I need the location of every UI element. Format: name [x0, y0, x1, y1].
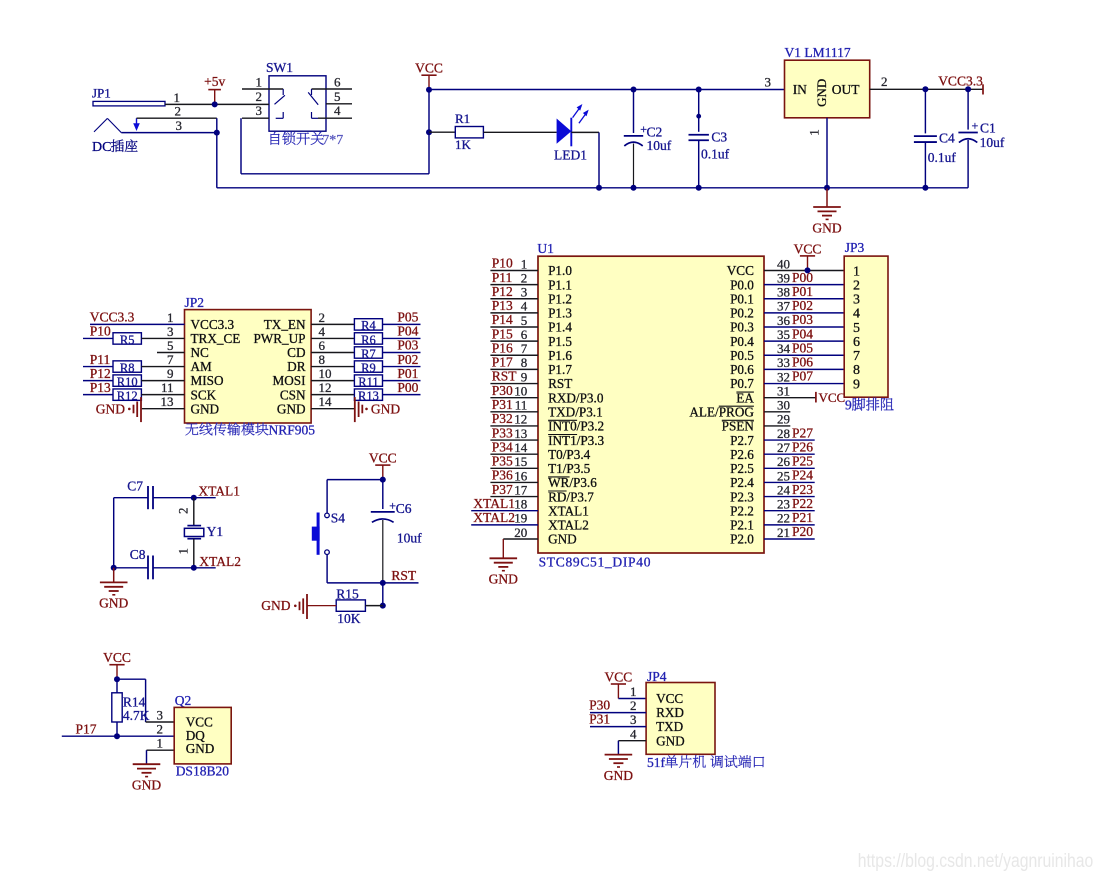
svg-text:XTAL1: XTAL1: [198, 484, 240, 499]
svg-text:33: 33: [777, 355, 790, 370]
svg-text:2: 2: [256, 89, 263, 104]
svg-text:NC: NC: [191, 345, 210, 360]
svg-text:TRX_CE: TRX_CE: [191, 331, 241, 346]
svg-text:13: 13: [514, 426, 527, 441]
svg-text:P10: P10: [90, 324, 111, 339]
svg-text:2: 2: [157, 722, 164, 737]
svg-text:R8: R8: [120, 361, 135, 375]
svg-text:SCK: SCK: [191, 387, 217, 402]
svg-text:0.1uf: 0.1uf: [928, 150, 957, 165]
svg-text:3: 3: [853, 293, 860, 308]
svg-text:14: 14: [319, 394, 333, 409]
svg-text:P06: P06: [792, 355, 813, 370]
svg-text:VCC: VCC: [605, 669, 633, 684]
svg-text:P02: P02: [792, 298, 813, 313]
svg-text:V1 LM1117: V1 LM1117: [785, 45, 851, 60]
svg-text:R5: R5: [120, 333, 135, 347]
svg-text:27: 27: [777, 440, 791, 455]
svg-text:C8: C8: [130, 547, 146, 562]
svg-text:31: 31: [777, 383, 790, 398]
svg-text:P0.5: P0.5: [730, 348, 754, 363]
svg-text:VCC3.3: VCC3.3: [90, 310, 135, 325]
svg-text:P1.3: P1.3: [548, 306, 572, 321]
svg-text:5: 5: [853, 321, 860, 336]
svg-text:1: 1: [167, 310, 174, 325]
svg-text:P2.5: P2.5: [730, 461, 754, 476]
svg-text:7: 7: [853, 349, 860, 364]
svg-text:13: 13: [161, 394, 174, 409]
svg-text:8: 8: [319, 352, 326, 367]
svg-text:3: 3: [176, 118, 183, 133]
svg-text:P07: P07: [792, 369, 813, 384]
svg-text:P14: P14: [492, 312, 513, 327]
svg-text:VCC3.3: VCC3.3: [938, 73, 983, 88]
svg-text:P05: P05: [397, 310, 418, 325]
svg-text:VCC: VCC: [819, 390, 846, 405]
svg-text:P37: P37: [492, 482, 513, 497]
svg-text:GND: GND: [812, 220, 841, 235]
svg-text:P03: P03: [792, 312, 813, 327]
svg-text:3: 3: [256, 103, 263, 118]
svg-text:P34: P34: [492, 439, 513, 454]
svg-text:4: 4: [521, 299, 528, 314]
svg-text:R10: R10: [117, 375, 138, 389]
svg-text:15: 15: [514, 454, 527, 469]
svg-text:10uf: 10uf: [647, 138, 672, 153]
svg-text:XTAL1: XTAL1: [548, 503, 589, 518]
svg-text:P32: P32: [492, 411, 513, 426]
svg-text:P0.3: P0.3: [730, 320, 754, 335]
svg-text:P31: P31: [492, 397, 513, 412]
svg-text:JP3: JP3: [845, 240, 865, 255]
svg-text:P0.6: P0.6: [730, 362, 754, 377]
svg-text:6: 6: [521, 327, 528, 342]
svg-text:10uf: 10uf: [980, 135, 1005, 150]
svg-text:P17: P17: [76, 722, 97, 737]
svg-text:9: 9: [167, 366, 174, 381]
svg-text:P1.6: P1.6: [548, 348, 572, 363]
svg-text:4.7K: 4.7K: [123, 708, 150, 723]
svg-text:0.1uf: 0.1uf: [701, 146, 730, 161]
svg-text:VCC: VCC: [415, 61, 443, 76]
svg-text:26: 26: [777, 454, 791, 469]
svg-text:10: 10: [319, 366, 332, 381]
svg-text:7: 7: [167, 352, 174, 367]
svg-text:IN: IN: [793, 82, 807, 97]
svg-text:P11: P11: [492, 270, 513, 285]
svg-text:32: 32: [777, 369, 790, 384]
svg-text:5: 5: [334, 89, 341, 104]
svg-text:37: 37: [777, 299, 791, 314]
svg-text:1: 1: [807, 129, 822, 136]
svg-text:VCC: VCC: [186, 714, 213, 729]
svg-text:P1.2: P1.2: [548, 291, 572, 306]
svg-text:1: 1: [174, 90, 181, 105]
svg-text:1K: 1K: [455, 137, 472, 152]
svg-text:40: 40: [777, 256, 790, 271]
svg-text:1: 1: [157, 736, 164, 751]
svg-text:P13: P13: [90, 380, 111, 395]
svg-text:GND: GND: [489, 572, 518, 587]
svg-text:JP4: JP4: [647, 669, 667, 684]
svg-text:P27: P27: [792, 425, 813, 440]
svg-text:Y1: Y1: [207, 524, 224, 539]
svg-text:C3: C3: [711, 129, 727, 144]
svg-text:NRF905: NRF905: [269, 422, 316, 437]
svg-text:R7: R7: [361, 347, 376, 361]
svg-text:C4: C4: [939, 131, 955, 146]
svg-text:6: 6: [334, 75, 341, 90]
svg-text:P01: P01: [792, 284, 813, 299]
svg-text:P21: P21: [792, 510, 813, 525]
svg-text:P0.2: P0.2: [730, 306, 754, 321]
svg-text:PWR_UP: PWR_UP: [253, 331, 305, 346]
svg-text:3: 3: [167, 324, 174, 339]
svg-text:P04: P04: [397, 324, 418, 339]
svg-text:C1: C1: [980, 120, 996, 135]
svg-text:P1.4: P1.4: [548, 320, 572, 335]
svg-text:9: 9: [845, 397, 852, 412]
svg-text:P12: P12: [90, 366, 111, 381]
svg-text:28: 28: [777, 426, 790, 441]
svg-text:R6: R6: [361, 333, 376, 347]
svg-text:S4: S4: [331, 510, 346, 525]
svg-text:VCC: VCC: [656, 691, 683, 706]
svg-text:19: 19: [514, 511, 527, 526]
svg-text:2: 2: [853, 278, 860, 293]
svg-text:9: 9: [521, 369, 528, 384]
svg-text:P26: P26: [792, 439, 813, 454]
svg-text:P30: P30: [589, 698, 610, 713]
svg-text:R1: R1: [455, 111, 470, 126]
svg-text:P0.0: P0.0: [730, 277, 754, 292]
svg-text:51f: 51f: [647, 755, 666, 770]
svg-text:P1.0: P1.0: [548, 263, 572, 278]
svg-text:10: 10: [514, 383, 527, 398]
svg-text:P24: P24: [792, 468, 813, 483]
svg-text:8: 8: [521, 355, 528, 370]
svg-text:P2.0: P2.0: [730, 532, 754, 547]
svg-text:P1.1: P1.1: [548, 277, 572, 292]
svg-text:35: 35: [777, 327, 790, 342]
svg-text:TX_EN: TX_EN: [264, 317, 306, 332]
svg-text:P1.7: P1.7: [548, 362, 572, 377]
svg-text:JP2: JP2: [185, 295, 205, 310]
svg-text:P35: P35: [492, 454, 513, 469]
svg-text:P23: P23: [792, 482, 813, 497]
svg-text:4: 4: [334, 103, 341, 118]
svg-text:P13: P13: [492, 298, 513, 313]
svg-text:RST: RST: [548, 376, 572, 391]
svg-text:3: 3: [630, 712, 637, 727]
svg-text:C6: C6: [396, 501, 412, 516]
svg-text:P00: P00: [397, 380, 418, 395]
svg-text:4: 4: [853, 307, 860, 322]
svg-text:P12: P12: [492, 284, 513, 299]
svg-text:22: 22: [777, 511, 790, 526]
svg-text:P0.4: P0.4: [730, 334, 754, 349]
svg-text:1: 1: [630, 684, 637, 699]
svg-text:12: 12: [319, 380, 332, 395]
svg-text:P0.1: P0.1: [730, 291, 754, 306]
svg-text:R9: R9: [361, 361, 376, 375]
svg-text:7*7: 7*7: [322, 133, 343, 148]
svg-text:38: 38: [777, 285, 790, 300]
svg-text:5: 5: [521, 313, 528, 328]
svg-text:https://blog.csdn.net/yagnruin: https://blog.csdn.net/yagnruinihao: [858, 851, 1094, 872]
svg-text:CSN: CSN: [280, 387, 306, 402]
svg-text:P30: P30: [492, 383, 513, 398]
svg-text:DS18B20: DS18B20: [176, 764, 230, 779]
svg-text:4: 4: [630, 726, 637, 741]
svg-text:VCC: VCC: [794, 241, 822, 256]
svg-text:P00: P00: [792, 270, 813, 285]
svg-text:LED1: LED1: [554, 148, 587, 163]
svg-text:1: 1: [521, 256, 528, 271]
svg-text:24: 24: [777, 482, 791, 497]
svg-text:XTAL1: XTAL1: [473, 496, 515, 511]
svg-text:30: 30: [777, 398, 790, 413]
svg-text:36: 36: [777, 313, 791, 328]
svg-text:P11: P11: [90, 352, 111, 367]
svg-text:3: 3: [521, 285, 528, 300]
svg-text:Q2: Q2: [175, 693, 192, 708]
svg-text:JP1: JP1: [92, 86, 111, 101]
svg-text:P2.7: P2.7: [730, 433, 754, 448]
svg-text:10K: 10K: [337, 611, 361, 626]
svg-text:2: 2: [521, 270, 528, 285]
svg-text:7: 7: [521, 341, 528, 356]
svg-text:U1: U1: [537, 241, 554, 256]
svg-text:P22: P22: [792, 496, 813, 511]
svg-text:DC: DC: [92, 140, 111, 155]
svg-text:GND: GND: [604, 768, 633, 783]
svg-text:MOSI: MOSI: [273, 373, 306, 388]
svg-text:CD: CD: [287, 345, 305, 360]
svg-text:9: 9: [853, 377, 860, 392]
svg-text:GND: GND: [814, 79, 829, 107]
svg-text:+: +: [972, 119, 979, 133]
svg-text:8: 8: [853, 363, 860, 378]
svg-text:P01: P01: [397, 366, 418, 381]
svg-text:P2.6: P2.6: [730, 447, 754, 462]
svg-text:25: 25: [777, 468, 790, 483]
svg-text:XTAL2: XTAL2: [548, 518, 589, 533]
svg-text:VCC: VCC: [103, 650, 131, 665]
svg-text:XTAL2: XTAL2: [199, 554, 241, 569]
svg-text:2: 2: [319, 310, 326, 325]
svg-text:GND: GND: [656, 733, 685, 748]
svg-text:10uf: 10uf: [397, 530, 422, 545]
svg-text:GND: GND: [548, 532, 577, 547]
svg-text:3: 3: [765, 74, 772, 89]
svg-text:GND: GND: [191, 401, 220, 416]
svg-text:18: 18: [514, 497, 527, 512]
svg-text:12: 12: [514, 412, 527, 427]
svg-text:P2.2: P2.2: [730, 503, 754, 518]
svg-text:RXD/P3.0: RXD/P3.0: [548, 390, 604, 405]
svg-text:GND: GND: [132, 778, 161, 793]
svg-text:AM: AM: [191, 359, 213, 374]
svg-text:P02: P02: [397, 352, 418, 367]
svg-text:T1/P3.5: T1/P3.5: [548, 461, 591, 476]
svg-text:MISO: MISO: [191, 373, 224, 388]
svg-text:GND: GND: [261, 598, 290, 613]
svg-text:P10: P10: [492, 256, 513, 271]
svg-text:2: 2: [175, 104, 182, 119]
svg-text:4: 4: [319, 324, 326, 339]
svg-text:P16: P16: [492, 340, 513, 355]
svg-text:GND: GND: [96, 401, 125, 416]
svg-text:GND: GND: [371, 401, 400, 416]
svg-text:TXD: TXD: [656, 719, 683, 734]
svg-text:11: 11: [515, 398, 528, 413]
svg-text:INT0/P3.2: INT0/P3.2: [548, 419, 604, 434]
svg-text:VCC3.3: VCC3.3: [191, 317, 235, 332]
svg-text:P2.4: P2.4: [730, 475, 754, 490]
svg-text:P03: P03: [397, 338, 418, 353]
svg-text:2: 2: [881, 74, 888, 89]
svg-text:RXD: RXD: [656, 705, 684, 720]
svg-text:21: 21: [777, 525, 790, 540]
svg-text:XTAL2: XTAL2: [473, 510, 515, 525]
svg-text:1: 1: [853, 264, 860, 279]
svg-text:6: 6: [319, 338, 326, 353]
svg-text:3: 3: [157, 708, 164, 723]
svg-text:2: 2: [630, 698, 637, 713]
svg-text:17: 17: [514, 482, 528, 497]
svg-text:SW1: SW1: [266, 60, 293, 75]
svg-text:P2.3: P2.3: [730, 489, 754, 504]
svg-text:P31: P31: [589, 712, 610, 727]
svg-text:P25: P25: [792, 454, 813, 469]
svg-text:RST: RST: [492, 369, 518, 384]
svg-text:DR: DR: [287, 359, 306, 374]
svg-text:2: 2: [177, 508, 191, 514]
svg-text:RST: RST: [391, 568, 417, 583]
svg-text:P33: P33: [492, 425, 513, 440]
svg-text:5: 5: [167, 338, 174, 353]
svg-text:TXD/P3.1: TXD/P3.1: [548, 405, 603, 420]
svg-text:P2.1: P2.1: [730, 518, 754, 533]
svg-text:P36: P36: [492, 468, 513, 483]
svg-text:1: 1: [256, 75, 263, 90]
svg-text:T0/P3.4: T0/P3.4: [548, 447, 591, 462]
svg-text:P0.7: P0.7: [730, 376, 754, 391]
svg-text:R11: R11: [358, 375, 378, 389]
svg-text:OUT: OUT: [832, 82, 860, 97]
svg-text:34: 34: [777, 341, 791, 356]
svg-text:VCC: VCC: [727, 263, 754, 278]
svg-text:29: 29: [777, 412, 790, 427]
svg-text:C7: C7: [127, 478, 143, 493]
svg-text:P1.5: P1.5: [548, 334, 572, 349]
svg-text:GND: GND: [99, 596, 128, 611]
svg-text:GND: GND: [277, 401, 306, 416]
svg-text:14: 14: [514, 440, 528, 455]
svg-text:1: 1: [177, 548, 191, 554]
svg-text:R15: R15: [336, 586, 359, 601]
svg-text:P20: P20: [792, 524, 813, 539]
svg-text:STC89C51_DIP40: STC89C51_DIP40: [539, 555, 652, 570]
svg-text:11: 11: [161, 380, 174, 395]
svg-text:R4: R4: [361, 319, 376, 333]
svg-text:23: 23: [777, 497, 790, 512]
svg-text:P15: P15: [492, 326, 513, 341]
svg-text:GND: GND: [186, 741, 215, 756]
svg-text:6: 6: [853, 335, 860, 350]
svg-text:16: 16: [514, 468, 528, 483]
svg-text:39: 39: [777, 270, 790, 285]
svg-text:P05: P05: [792, 340, 813, 355]
svg-text:VCC: VCC: [369, 451, 397, 466]
svg-text:+5v: +5v: [204, 74, 225, 89]
svg-text:PSEN: PSEN: [722, 419, 755, 434]
svg-text:P17: P17: [492, 355, 513, 370]
svg-text:20: 20: [514, 525, 527, 540]
svg-text:P04: P04: [792, 326, 813, 341]
